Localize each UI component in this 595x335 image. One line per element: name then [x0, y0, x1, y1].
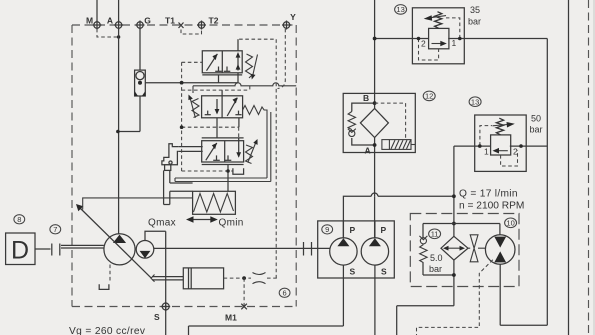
svg-text:S: S: [154, 312, 160, 322]
svg-text:Qmin: Qmin: [219, 218, 244, 229]
svg-text:11: 11: [431, 230, 439, 239]
svg-text:1: 1: [484, 147, 489, 157]
svg-text:6: 6: [283, 289, 287, 298]
svg-text:9: 9: [325, 225, 329, 234]
svg-text:P: P: [381, 225, 387, 235]
svg-text:B: B: [363, 93, 369, 103]
svg-text:Qmax: Qmax: [148, 218, 176, 229]
svg-text:1: 1: [452, 38, 457, 48]
svg-text:2: 2: [513, 147, 518, 157]
svg-text:7: 7: [53, 225, 57, 234]
svg-text:35: 35: [470, 5, 480, 15]
svg-text:n = 2100 RPM: n = 2100 RPM: [459, 201, 524, 212]
svg-text:13: 13: [396, 5, 404, 14]
svg-text:A: A: [365, 146, 371, 156]
svg-text:Q = 17 l/min: Q = 17 l/min: [459, 189, 518, 200]
svg-text:2: 2: [421, 39, 426, 49]
svg-text:P: P: [350, 225, 356, 235]
svg-text:bar: bar: [468, 17, 481, 27]
svg-text:5.0: 5.0: [430, 253, 443, 263]
svg-text:D: D: [11, 237, 29, 265]
svg-text:M: M: [86, 16, 93, 26]
svg-text:S: S: [381, 267, 387, 277]
svg-text:13: 13: [471, 98, 479, 107]
svg-text:12: 12: [425, 92, 433, 101]
svg-text:Vg = 260 cc/rev: Vg = 260 cc/rev: [69, 326, 146, 335]
svg-text:T1: T1: [165, 16, 175, 26]
svg-text:10: 10: [506, 219, 514, 228]
svg-text:bar: bar: [429, 264, 442, 274]
svg-text:50: 50: [531, 114, 541, 124]
svg-text:S: S: [350, 267, 356, 277]
svg-text:A: A: [107, 16, 113, 26]
svg-text:bar: bar: [530, 125, 543, 135]
svg-text:T2: T2: [209, 16, 219, 26]
svg-text:G: G: [144, 16, 151, 26]
svg-text:8: 8: [17, 215, 21, 224]
svg-text:Y: Y: [290, 12, 296, 22]
svg-text:M1: M1: [225, 313, 237, 323]
